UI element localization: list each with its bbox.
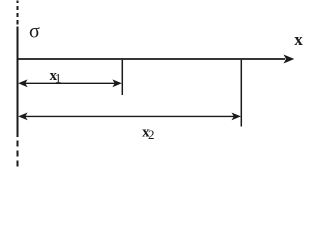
x2 label	[142, 125, 154, 143]
svg-text:σ: σ	[29, 21, 40, 43]
x1 dimension right arrowhead	[112, 79, 121, 87]
svg-text:2: 2	[148, 127, 155, 142]
extension tick at x2	[240, 60, 242, 127]
x2 dimension right arrowhead	[232, 113, 241, 121]
x2 dimension left arrowhead	[18, 113, 27, 121]
svg-text:1: 1	[55, 70, 62, 85]
wall centerline: solid middle segment	[17, 27, 19, 138]
x1 label	[50, 68, 62, 85]
x axis arrowhead	[284, 55, 295, 64]
x1 dimension line	[24, 82, 116, 84]
wall centerline: bottom dashed segment	[17, 141, 19, 167]
x axis label	[294, 30, 303, 49]
x1 dimension left arrowhead	[18, 79, 27, 87]
x2 dimension line	[24, 115, 235, 117]
svg-text:x: x	[294, 30, 303, 49]
extension tick at x1	[121, 60, 123, 95]
wall centerline: top dashed segment	[17, 1, 19, 25]
sigma stress label	[29, 21, 40, 43]
x axis line	[17, 58, 286, 60]
